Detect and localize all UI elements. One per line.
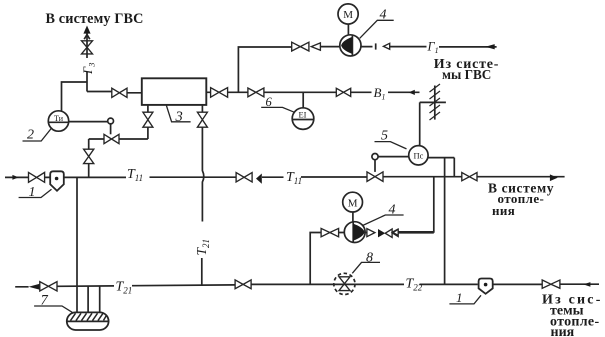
- pump 4 (mixing pump): [344, 222, 365, 243]
- valve: vertical hourglass inside 8: [339, 277, 350, 291]
- sensor 5 (Пс regulator): [409, 146, 428, 165]
- wire: impulse line П-shape and drop to T22: [428, 158, 454, 285]
- node: flow arrow left (from heating system): [583, 282, 590, 287]
- node: check arrow filled left: [256, 174, 262, 184]
- valve: regulator valve U5 on T11: [367, 172, 383, 182]
- valve: circulation valve: [292, 42, 309, 51]
- valve: riser valve: [84, 149, 94, 163]
- valve: HX bottom-right valve: [197, 112, 207, 127]
- node: open arrow left at branch end: [392, 229, 398, 235]
- valve: T11 outlet valve: [462, 173, 477, 181]
- node: check arrow open left: [383, 43, 389, 49]
- valve: control valve on HX feed: [104, 134, 119, 143]
- node: flow arrow right (network supply in): [12, 175, 18, 180]
- svg-text:М: М: [348, 197, 358, 209]
- svg-text:Ти: Ти: [54, 114, 64, 123]
- svg-text:В1: В1: [374, 85, 386, 102]
- node: small tick: [375, 43, 377, 49]
- wire: capillary to Пс: [378, 156, 409, 158]
- wire: HX bottom-right stub: [201, 105, 203, 112]
- svg-text:Т21: Т21: [116, 279, 133, 295]
- svg-text:1: 1: [456, 290, 463, 305]
- valve: T11 inlet valve: [29, 172, 45, 182]
- wire: Пс stem to wall: [420, 102, 446, 145]
- svg-text:Т11: Т11: [286, 170, 302, 186]
- motor M of mixing pump: [343, 192, 363, 212]
- sensor 6 (ЕI bubble): [302, 92, 304, 108]
- node: flow arrow left (return out): [29, 284, 40, 290]
- wire: mixing pump suction/discharge: [310, 233, 434, 286]
- svg-text:Пс: Пс: [413, 151, 423, 161]
- svg-text:ния: ния: [551, 325, 575, 337]
- valve: HX outlet valve: [211, 88, 228, 98]
- node: flow arrow left on В1: [409, 90, 415, 95]
- valve: T11 mid valve: [236, 173, 252, 182]
- wire: capillary from sensor 2 to actuator: [69, 121, 108, 123]
- node: actuator lollipop: [372, 154, 378, 160]
- wire: riser to HX inlet: [87, 92, 142, 93]
- heat exchanger 3: [142, 78, 207, 105]
- svg-text:В систему ГВС: В систему ГВС: [46, 11, 144, 27]
- wire: T11 main line: [5, 176, 565, 179]
- valve: second valve: [248, 88, 264, 97]
- pump 4 (circulation pump): [340, 35, 361, 56]
- node: open arrow left at branch end (pump side): [392, 229, 398, 236]
- filter 1 (right strainer): [479, 279, 493, 294]
- wire: branch to sensor 2: [62, 82, 88, 111]
- wire: HX outlet line: [206, 91, 419, 93]
- svg-text:М: М: [343, 9, 353, 21]
- node: flow arrow up (to ГВС): [83, 26, 90, 34]
- valve: cold water valve: [336, 88, 350, 96]
- wire: HX bottom-left stub: [147, 105, 149, 139]
- node: open chevron arrow up: [84, 35, 90, 40]
- svg-text:мы ГВС: мы ГВС: [442, 67, 491, 82]
- node: wall anchor with hatching: [434, 86, 436, 120]
- wire: elevator risers: [77, 177, 100, 312]
- svg-text:2: 2: [27, 128, 34, 143]
- wire: [89, 138, 148, 140]
- wire: T21/T22 return line: [15, 284, 599, 287]
- valve: pump inlet valve: [321, 228, 339, 236]
- wire: long drop to T21 with jog over T11: [202, 127, 204, 285]
- wire: branch T11 to mixing pump: [398, 177, 433, 232]
- wire: DHW circulation line: [238, 47, 496, 93]
- valve: HX bottom-left valve: [143, 112, 153, 127]
- wire: DHW riser: [86, 33, 88, 92]
- node: flow arrow right (to heating system): [550, 174, 558, 181]
- valve: DHW riser valve: [82, 41, 93, 54]
- svg-text:Т21: Т21: [194, 239, 211, 256]
- wire: riser from T11: [88, 139, 90, 177]
- component 8: dashed circle: [334, 273, 355, 294]
- svg-text:Т22: Т22: [406, 276, 423, 292]
- valve: HX inlet valve: [112, 88, 127, 97]
- node: flow arrow left (from ГВС system): [485, 44, 494, 49]
- valve: T22 inlet valve: [542, 280, 560, 288]
- valve: T21 outlet valve: [40, 282, 57, 291]
- elevator 7 (capsule): [67, 312, 109, 330]
- filter 1 (left strainer): [50, 171, 64, 191]
- svg-text:3: 3: [175, 109, 183, 125]
- svg-text:Г3: Г3: [81, 63, 97, 75]
- node: open arrow right after pump: [367, 229, 375, 237]
- motor M of pump 4: [338, 4, 358, 24]
- sensor 2 (Ти): [48, 111, 68, 131]
- svg-text:Т11: Т11: [127, 167, 143, 183]
- svg-text:Г1: Г1: [427, 39, 439, 55]
- svg-text:ния: ния: [492, 203, 515, 218]
- node: check valve (filled+open): [378, 229, 385, 237]
- svg-text:ЕI: ЕI: [298, 110, 306, 120]
- node: valve actuator (lollipop): [108, 118, 114, 124]
- valve: T21 mid valve: [235, 280, 251, 289]
- node: check arrow open left: [311, 43, 320, 50]
